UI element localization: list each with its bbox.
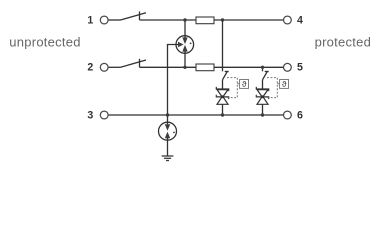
svg-text:1: 1 — [87, 14, 93, 26]
terminal 4 — [284, 16, 292, 24]
gas discharge tube U1 (3-electrode) — [176, 36, 194, 54]
suppressor diode D2 (bidirectional TVS) — [256, 87, 268, 104]
wire row2 middle — [140, 66, 197, 68]
junction row2 x=262.5 — [261, 66, 264, 69]
wire branch B vertical from row2 — [262, 67, 264, 71]
thermal sensor box B — [280, 80, 289, 89]
thermal linkage A (dashed) — [227, 78, 240, 98]
junction row3 x=262.5 — [261, 113, 264, 116]
thermal disconnect A contact tick — [225, 71, 229, 73]
switch S1 fixed contact tick — [139, 12, 141, 21]
thermal disconnect A blade — [223, 71, 228, 80]
svg-text:protected: protected — [315, 34, 371, 49]
wire row1 left segment — [108, 19, 121, 21]
terminal 3 — [100, 111, 108, 119]
ground — [162, 156, 174, 161]
svg-text:2: 2 — [87, 62, 93, 74]
wire vertical net at x=185 row1 to GDT — [184, 20, 186, 38]
wire arrester F2 to ground — [167, 138, 169, 156]
junction row3 x=167.5 — [166, 113, 169, 116]
wire row1 middle — [140, 19, 197, 21]
wire disconnect B to TVS D2 — [262, 80, 264, 89]
wire row2 left segment — [108, 66, 121, 68]
svg-text:6: 6 — [297, 109, 303, 121]
thermal linkage B (dashed) — [267, 78, 280, 98]
wire TVS D2 to row3 — [262, 104, 264, 115]
wire row1 right — [214, 19, 284, 21]
junction row2 x=185 — [183, 66, 186, 69]
wire earth net row3 to arrester F2 — [167, 115, 169, 124]
svg-text:5: 5 — [297, 62, 303, 74]
thermal sensor box A — [240, 80, 249, 89]
resistor R1 — [196, 17, 214, 24]
suppressor diode D1 (bidirectional TVS) — [216, 87, 228, 104]
switch S1 blade — [121, 13, 147, 20]
terminal 5 — [284, 63, 292, 71]
wire TVS D1 to row3 — [222, 104, 224, 115]
resistor R2 — [196, 64, 214, 71]
thermal disconnect B blade — [263, 71, 268, 80]
terminal 6 — [284, 111, 292, 119]
junction row1 x=185 — [183, 18, 186, 21]
svg-text:ϑ: ϑ — [282, 79, 287, 89]
switch S2 blade — [121, 60, 147, 67]
junction row1 x=222.5 — [221, 18, 224, 21]
wire row3 — [108, 114, 284, 116]
junction row3 x=222.5 — [221, 113, 224, 116]
svg-text:unprotected: unprotected — [9, 34, 80, 49]
wire branch A vertical from row1 — [222, 20, 224, 71]
svg-text:3: 3 — [87, 109, 93, 121]
wire GDT centre arm to earth net — [168, 45, 179, 116]
wire row2 right — [214, 66, 284, 68]
wire GDT bottom to row2 — [184, 51, 186, 67]
switch S2 fixed contact tick — [139, 59, 141, 68]
svg-text:4: 4 — [297, 14, 303, 26]
wire disconnect A to TVS D1 — [222, 80, 224, 89]
terminal 2 — [100, 63, 108, 71]
thermal disconnect B contact tick — [265, 71, 269, 73]
terminal 1 — [100, 16, 108, 24]
surge arrester F2 (2-electrode) — [159, 122, 177, 140]
svg-text:ϑ: ϑ — [242, 79, 247, 89]
